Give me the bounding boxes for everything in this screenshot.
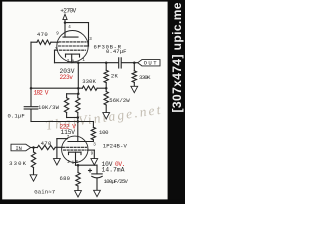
svg-text:223v: 223v xyxy=(60,74,74,81)
svg-text:100: 100 xyxy=(99,129,109,136)
svg-text:OUT: OUT xyxy=(144,60,158,67)
svg-text:0.1µF: 0.1µF xyxy=(8,113,25,120)
svg-text:182 V: 182 V xyxy=(34,89,49,96)
svg-text:1P24B-V: 1P24B-V xyxy=(103,143,128,150)
svg-text:330K: 330K xyxy=(9,160,27,167)
svg-text:115V: 115V xyxy=(61,129,76,136)
svg-text:[307x474] upic.me: [307x474] upic.me xyxy=(170,2,184,112)
svg-text:470: 470 xyxy=(41,140,52,147)
svg-text:100µF/25V: 100µF/25V xyxy=(104,178,129,185)
svg-text:IN: IN xyxy=(15,145,22,152)
svg-text:Gain≈7: Gain≈7 xyxy=(34,188,55,195)
svg-text:14.7mA: 14.7mA xyxy=(102,166,125,173)
svg-text:680: 680 xyxy=(60,175,71,182)
svg-text:56K/2W: 56K/2W xyxy=(109,97,130,104)
svg-text:2K: 2K xyxy=(111,73,119,80)
svg-text:+270V: +270V xyxy=(60,7,76,14)
svg-text:10K/3W: 10K/3W xyxy=(38,104,60,111)
svg-text:330K: 330K xyxy=(139,74,151,81)
svg-text:330K: 330K xyxy=(82,78,96,85)
svg-text:470: 470 xyxy=(37,31,48,38)
svg-text:0.47µF: 0.47µF xyxy=(106,48,127,55)
